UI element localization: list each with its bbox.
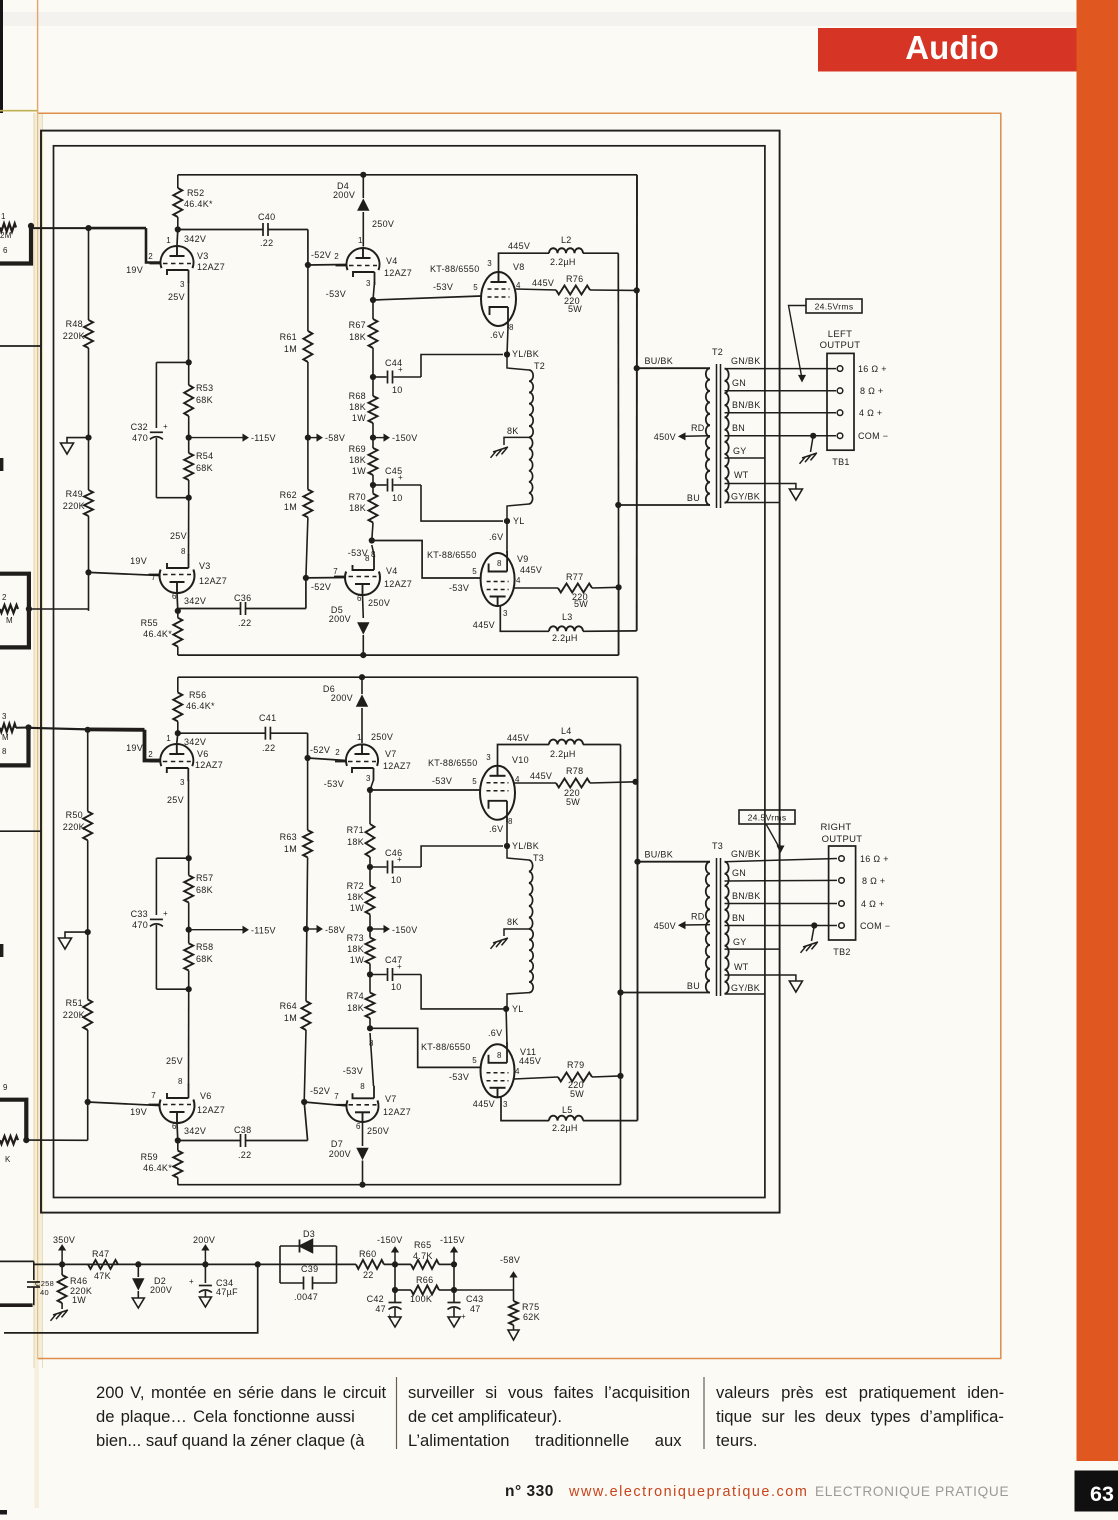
olive line left bbox=[0, 110, 37, 112]
capacitor C38 .22 bbox=[178, 1140, 241, 1142]
wire BN/BK tap to 4ohm bbox=[725, 412, 837, 414]
capacitor C40 .22 bbox=[178, 229, 263, 231]
node cathode junction bottom bbox=[186, 495, 192, 501]
svg-text:16 Ω +: 16 Ω + bbox=[860, 854, 889, 864]
svg-text:5W: 5W bbox=[568, 304, 582, 314]
svg-text:220K: 220K bbox=[63, 501, 85, 511]
node -150V psu bbox=[392, 1261, 398, 1267]
svg-text:D3: D3 bbox=[303, 1229, 315, 1239]
24.5Vrms callout box ch2 bbox=[739, 810, 795, 824]
svg-text:LEFT: LEFT bbox=[828, 329, 852, 340]
svg-text:GN: GN bbox=[732, 378, 746, 388]
wire GY tap to outer loop ch2 bbox=[725, 948, 780, 950]
node cathode junction top ch2 bbox=[186, 855, 192, 861]
svg-text:8: 8 bbox=[508, 817, 513, 826]
svg-text:12AZ7: 12AZ7 bbox=[197, 262, 225, 272]
svg-text:10: 10 bbox=[392, 493, 403, 503]
svg-text:200V: 200V bbox=[333, 190, 355, 200]
svg-text:C40: C40 bbox=[258, 212, 275, 222]
svg-text:445V: 445V bbox=[520, 565, 542, 575]
svg-text:R60: R60 bbox=[359, 1249, 376, 1259]
svg-text:KT-88/6550: KT-88/6550 bbox=[428, 758, 478, 768]
node R48 top bbox=[85, 225, 91, 231]
svg-text:WT: WT bbox=[734, 470, 749, 480]
left grid-leak column ch2 bbox=[87, 730, 89, 812]
capacitor C44 10 bbox=[373, 376, 387, 378]
svg-text:445V: 445V bbox=[473, 620, 495, 630]
svg-text:5: 5 bbox=[472, 567, 477, 576]
node V3 lower grid bbox=[85, 569, 91, 575]
svg-text:-58V: -58V bbox=[500, 1255, 520, 1265]
input fragment 1 resistor stub bbox=[0, 224, 16, 232]
resistor R71 18K bbox=[369, 790, 371, 824]
svg-text:220K: 220K bbox=[63, 1010, 85, 1020]
node -115V ch2 bbox=[186, 927, 192, 933]
wire WT tap to ground ch2 bbox=[725, 975, 796, 981]
svg-text:.6V: .6V bbox=[488, 1028, 502, 1038]
zener diode D6 200V bbox=[361, 677, 363, 694]
svg-text:GN: GN bbox=[732, 868, 746, 878]
svg-text:3: 3 bbox=[180, 778, 185, 787]
vertical bus x637 (rail/R76/BUBK/L3) bbox=[636, 175, 638, 631]
svg-text:GN/BK: GN/BK bbox=[731, 356, 761, 366]
resistor R49 220K bbox=[84, 490, 93, 516]
svg-text:C42: C42 bbox=[367, 1294, 384, 1304]
wire WT tap to ground bbox=[725, 484, 796, 490]
svg-text:T3: T3 bbox=[712, 841, 723, 851]
svg-text:.22: .22 bbox=[238, 618, 251, 628]
V8 cathode lead bbox=[507, 327, 508, 355]
resistor R65 4.7K bbox=[411, 1260, 439, 1269]
ground open triangle 1 bbox=[61, 443, 74, 454]
svg-text:200V: 200V bbox=[329, 1149, 351, 1159]
resistor R56 46.4K bbox=[177, 677, 179, 692]
terminal strip TB1 bbox=[827, 353, 854, 450]
svg-text:7: 7 bbox=[333, 567, 338, 576]
svg-text:-52V: -52V bbox=[310, 1086, 330, 1096]
wire GY/BK tap to inner loop ch2 bbox=[725, 993, 765, 995]
node V4 lower grid bbox=[303, 575, 309, 581]
svg-text:L3: L3 bbox=[562, 612, 573, 622]
V3 cathode column / bias divider bbox=[188, 282, 190, 362]
svg-text:47: 47 bbox=[470, 1304, 481, 1314]
svg-text:TB2: TB2 bbox=[833, 947, 850, 957]
svg-text:350V: 350V bbox=[53, 1235, 75, 1245]
svg-text:3: 3 bbox=[487, 259, 492, 268]
svg-text:445V: 445V bbox=[508, 241, 530, 251]
wire to V7 pin2 bbox=[308, 758, 346, 761]
svg-text:GN/BK: GN/BK bbox=[731, 849, 761, 859]
capacitor C43 47 bbox=[448, 1302, 461, 1304]
inductor L3 2.2uH bbox=[549, 626, 583, 631]
node input1 bbox=[28, 223, 34, 229]
capacitor C34 47uF bbox=[204, 1264, 206, 1283]
svg-text:5: 5 bbox=[472, 1056, 477, 1065]
node 200V bbox=[202, 1261, 208, 1267]
svg-text:1: 1 bbox=[1, 212, 6, 221]
svg-text:R48: R48 bbox=[66, 319, 83, 329]
wire BU tap bbox=[618, 504, 710, 506]
svg-text:.22: .22 bbox=[262, 743, 275, 753]
svg-text:2: 2 bbox=[148, 750, 153, 759]
pentode V10 KT-88/6550 bbox=[480, 766, 515, 820]
node C46 bbox=[367, 864, 373, 870]
outer feedback loop rectangle bbox=[41, 131, 780, 1213]
svg-text:1M: 1M bbox=[284, 502, 297, 512]
svg-text:GY: GY bbox=[733, 937, 747, 947]
svg-text:68K: 68K bbox=[196, 885, 213, 895]
svg-text:R63: R63 bbox=[280, 832, 297, 842]
node V7 grid bbox=[305, 755, 311, 761]
svg-text:+: + bbox=[163, 909, 168, 918]
resistor R55 46.4K bbox=[177, 611, 179, 618]
svg-text:+: + bbox=[398, 473, 403, 482]
V6 lower plate lead + node 342V ch2 bbox=[176, 1123, 179, 1141]
svg-text:1M: 1M bbox=[284, 1013, 297, 1023]
B+ rail channel1 top bbox=[178, 174, 637, 176]
svg-text:1W: 1W bbox=[352, 466, 366, 476]
node V3 plate / C40 bbox=[175, 226, 181, 232]
vertical bus x620 ch2 bbox=[620, 745, 622, 1185]
svg-text:+: + bbox=[163, 422, 168, 431]
svg-text:M: M bbox=[2, 733, 9, 742]
svg-text:25V: 25V bbox=[170, 531, 187, 541]
V11 plate lead to L5 bbox=[501, 1097, 549, 1121]
transformer T3 primary winding bbox=[706, 862, 710, 993]
node -150V ch1 bbox=[370, 435, 376, 441]
svg-text:-150V: -150V bbox=[392, 925, 418, 935]
svg-text:8: 8 bbox=[497, 1051, 502, 1060]
svg-text:de plaque… Cela fonctionne: de plaque… Cela fonctionne aussi bbox=[96, 1407, 355, 1426]
svg-text:250V: 250V bbox=[368, 598, 390, 608]
wire C32 top bbox=[156, 361, 188, 363]
C42 leg bbox=[394, 1264, 396, 1302]
node ground tap 1 bbox=[85, 435, 91, 441]
svg-text:COM −: COM − bbox=[858, 431, 888, 441]
capacitor C32 470 bbox=[155, 362, 157, 428]
svg-text:R61: R61 bbox=[280, 332, 297, 342]
svg-text:R71: R71 bbox=[347, 825, 364, 835]
wire BU/BK tap bbox=[637, 367, 710, 369]
zener diode D5 200V bbox=[362, 595, 365, 618]
svg-text:25V: 25V bbox=[168, 292, 185, 302]
vertical bus x618 (L2/BU/R77) bbox=[617, 253, 619, 655]
svg-text:24.5Vrms: 24.5Vrms bbox=[815, 302, 854, 312]
svg-text:BN/BK: BN/BK bbox=[732, 891, 761, 901]
node V6 lower grid bbox=[85, 1099, 91, 1105]
psu long return wire bbox=[4, 1264, 258, 1333]
svg-text:12AZ7: 12AZ7 bbox=[195, 760, 223, 770]
svg-text:8 Ω +: 8 Ω + bbox=[862, 876, 886, 886]
svg-text:GY: GY bbox=[733, 446, 747, 456]
svg-text:3: 3 bbox=[486, 753, 491, 762]
svg-text:5W: 5W bbox=[566, 797, 580, 807]
node V4 grid bbox=[305, 262, 311, 268]
node -115V psu bbox=[451, 1261, 457, 1267]
svg-text:2.2µH: 2.2µH bbox=[552, 1123, 578, 1133]
wire to V4 pin7 bbox=[306, 577, 346, 579]
V3 lower plate lead + node 342V bbox=[176, 593, 179, 611]
svg-text:25V: 25V bbox=[166, 1056, 183, 1066]
wire V6 plate lead bbox=[177, 733, 178, 743]
svg-text:9: 9 bbox=[3, 1083, 8, 1092]
svg-text:BN: BN bbox=[732, 913, 745, 923]
capacitor C33 470 bbox=[155, 858, 157, 915]
input fragment 2 resistor stub bbox=[0, 605, 18, 613]
node 350V bbox=[59, 1261, 65, 1267]
ground open triangle C43 bbox=[448, 1317, 460, 1327]
bottom-left page edge mark bbox=[0, 1510, 7, 1515]
svg-text:2: 2 bbox=[335, 748, 340, 757]
resistor R47 47K bbox=[88, 1260, 118, 1269]
input fragment 3 resistor stub bbox=[0, 724, 16, 732]
node input4 bbox=[23, 1137, 29, 1143]
cathode winding T2 lower bbox=[529, 437, 533, 504]
svg-text:-58V: -58V bbox=[325, 925, 345, 935]
V9 cathode lead bbox=[506, 521, 508, 553]
T3 secondary winding bbox=[725, 862, 729, 994]
resistor R59 46.4K bbox=[177, 1141, 179, 1151]
psu main wire 350V bbox=[0, 1260, 34, 1262]
wire GY/BK tap to outer loop bbox=[725, 502, 780, 504]
node -53V ch1 upper bbox=[370, 297, 376, 303]
chassis ground R46 bbox=[53, 1310, 68, 1315]
svg-text:www.electroniquepratique.com: www.electroniquepratique.com bbox=[568, 1484, 808, 1500]
wire to V7 pin7 bbox=[304, 1102, 346, 1106]
24.5Vrms callout box ch1 bbox=[806, 299, 862, 313]
callout arrow ch1 bbox=[789, 306, 807, 377]
svg-text:C36: C36 bbox=[234, 593, 251, 603]
svg-text:R53: R53 bbox=[196, 383, 213, 393]
svg-text:8: 8 bbox=[497, 559, 502, 568]
svg-text:8: 8 bbox=[2, 747, 7, 756]
svg-text:+: + bbox=[398, 365, 403, 374]
svg-text:V4: V4 bbox=[386, 566, 398, 576]
svg-text:19V: 19V bbox=[130, 556, 147, 566]
wire GN/BK tap to 16ohm bbox=[725, 368, 837, 370]
svg-text:-115V: -115V bbox=[440, 1235, 465, 1245]
svg-text:-53V: -53V bbox=[324, 779, 344, 789]
left page-edge black bar bbox=[0, 0, 3, 113]
svg-text:R57: R57 bbox=[196, 873, 213, 883]
svg-text:4: 4 bbox=[516, 576, 521, 585]
wire GN tap to 8ohm ch2 bbox=[725, 879, 838, 882]
svg-text:C39: C39 bbox=[301, 1264, 318, 1274]
svg-text:de cet amplificateur).: de cet amplificateur). bbox=[408, 1407, 562, 1426]
node V7 lower grid bbox=[301, 1099, 307, 1105]
svg-text:3: 3 bbox=[366, 279, 371, 288]
node V9 grid feed bbox=[372, 523, 373, 541]
svg-text:.6V: .6V bbox=[490, 330, 504, 340]
svg-text:ELECTRONIQUE PRATIQUE: ELECTRONIQUE PRATIQUE bbox=[815, 1484, 1009, 1499]
svg-text:-53V: -53V bbox=[449, 1072, 469, 1082]
svg-text:200V: 200V bbox=[331, 693, 353, 703]
svg-text:RD: RD bbox=[691, 912, 705, 922]
svg-text:-150V: -150V bbox=[377, 1235, 403, 1245]
svg-text:12AZ7: 12AZ7 bbox=[199, 576, 227, 586]
C43 leg bbox=[453, 1264, 455, 1302]
svg-text:3: 3 bbox=[2, 712, 7, 721]
svg-text:OUTPUT: OUTPUT bbox=[820, 340, 861, 351]
svg-text:445V: 445V bbox=[530, 771, 552, 781]
pentode V9 KT-88/6550 bbox=[481, 553, 515, 606]
svg-text:R58: R58 bbox=[196, 942, 213, 952]
inductor L2 2.2uH bbox=[549, 248, 583, 253]
input fragment 1 thick return wire bbox=[0, 226, 31, 264]
svg-text:R70: R70 bbox=[349, 492, 366, 502]
wire RD tap 450V ch2 bbox=[684, 924, 710, 926]
V3 lower cathode lead bbox=[188, 498, 190, 555]
svg-text:6: 6 bbox=[356, 1122, 361, 1131]
svg-text:R75: R75 bbox=[522, 1302, 539, 1312]
wire to V6 pin7 bbox=[88, 1102, 160, 1106]
capacitor C47 10 bbox=[370, 974, 387, 976]
resistor R53 68K bbox=[184, 385, 193, 416]
resistor R73 18K 1W bbox=[366, 938, 375, 964]
svg-text:450V: 450V bbox=[654, 432, 676, 442]
svg-text:Audio: Audio bbox=[905, 29, 998, 66]
svg-text:18K: 18K bbox=[349, 332, 366, 342]
svg-text:n° 330: n° 330 bbox=[505, 1483, 554, 1500]
svg-text:2.2µH: 2.2µH bbox=[550, 749, 576, 759]
wire to V3 pin7 bbox=[89, 572, 160, 575]
node cathode junction bottom ch2 bbox=[186, 986, 192, 992]
bias rail corner up ch1 bbox=[618, 587, 620, 655]
svg-text:R55: R55 bbox=[141, 618, 158, 628]
resistor R67 18K bbox=[372, 300, 374, 319]
svg-text:19V: 19V bbox=[126, 265, 143, 275]
node C45 bbox=[370, 482, 376, 488]
diode D3 bbox=[300, 1240, 313, 1253]
svg-text:8: 8 bbox=[181, 547, 186, 556]
svg-text:+: + bbox=[397, 962, 402, 971]
svg-text:R56: R56 bbox=[189, 690, 206, 700]
svg-text:2: 2 bbox=[334, 252, 339, 261]
svg-text:200 V, montée en série dans le: 200 V, montée en série dans le circuit bbox=[96, 1383, 387, 1402]
ground open triangle WT bbox=[789, 489, 802, 500]
svg-text:7: 7 bbox=[151, 1091, 156, 1100]
V10 cathode lead bbox=[506, 821, 508, 846]
wire BN/BK tap to 4ohm ch2 bbox=[725, 903, 838, 905]
inner feedback loop rectangle bbox=[54, 146, 765, 1198]
svg-text:C258: C258 bbox=[35, 1279, 54, 1288]
cathode winding T3 upper bbox=[507, 846, 529, 860]
node R79 bus bbox=[617, 1073, 623, 1079]
resistor R75 62K bbox=[513, 1290, 515, 1301]
svg-text:-53V: -53V bbox=[326, 289, 346, 299]
svg-text:R68: R68 bbox=[349, 391, 366, 401]
wire V11 grid path bbox=[370, 1028, 481, 1067]
svg-text:1W: 1W bbox=[350, 903, 364, 913]
svg-text:BU/BK: BU/BK bbox=[644, 850, 673, 860]
svg-text:342V: 342V bbox=[184, 234, 206, 244]
svg-text:2: 2 bbox=[148, 252, 153, 261]
chassis ground TB2 bbox=[803, 942, 818, 947]
wire input1 to grid corner bbox=[31, 227, 89, 229]
svg-text:M: M bbox=[6, 616, 13, 625]
svg-text:220K: 220K bbox=[63, 822, 85, 832]
svg-text:47: 47 bbox=[375, 1304, 386, 1314]
svg-text:OUTPUT: OUTPUT bbox=[822, 834, 863, 845]
svg-text:3: 3 bbox=[503, 609, 508, 618]
V11 cathode lead bbox=[505, 1009, 508, 1044]
svg-text:12AZ7: 12AZ7 bbox=[197, 1105, 225, 1115]
chassis ground TB1 bbox=[802, 453, 817, 458]
wire GN tap to 8ohm bbox=[725, 390, 837, 392]
cathode winding T3 lower bbox=[529, 929, 533, 993]
resistor R74 18K bbox=[366, 993, 375, 1019]
svg-text:T2: T2 bbox=[534, 361, 545, 371]
svg-text:D7: D7 bbox=[331, 1139, 343, 1149]
svg-text:-52V: -52V bbox=[311, 250, 331, 260]
svg-text:46.4K*: 46.4K* bbox=[143, 1163, 172, 1173]
triode V3 lower half 12AZ7 bbox=[160, 570, 195, 594]
svg-text:R46: R46 bbox=[70, 1276, 87, 1286]
svg-text:3: 3 bbox=[180, 280, 185, 289]
resistor R57 68K bbox=[188, 858, 190, 875]
svg-text:+: + bbox=[461, 1312, 466, 1321]
wire BN tap to COM bbox=[725, 435, 837, 437]
wire input4 bbox=[26, 1139, 87, 1141]
node rail D6 bbox=[359, 674, 365, 680]
wire L5 to bus ch2 bbox=[583, 1120, 638, 1122]
wire to V4 pin2 bbox=[308, 264, 346, 267]
scanner gray band top bbox=[0, 12, 1080, 26]
svg-text:46.4K*: 46.4K* bbox=[143, 629, 172, 639]
triode V4 upper half 12AZ7 bbox=[347, 248, 380, 270]
svg-text:18K: 18K bbox=[347, 944, 364, 954]
svg-text:.22: .22 bbox=[238, 1150, 251, 1160]
Audio banner bbox=[818, 28, 1082, 72]
svg-text:25V: 25V bbox=[167, 795, 184, 805]
svg-text:250V: 250V bbox=[371, 732, 393, 742]
svg-text:V3: V3 bbox=[199, 561, 211, 571]
svg-text:KT-88/6550: KT-88/6550 bbox=[430, 264, 480, 274]
wire GY tap to inner loop bbox=[725, 457, 765, 459]
D3 C39 parallel network box bbox=[279, 1246, 281, 1283]
svg-text:220K: 220K bbox=[63, 331, 85, 341]
wire to ground 2 bbox=[65, 932, 88, 938]
resistor R50 220K bbox=[83, 811, 92, 840]
ground open triangle WT ch2 bbox=[789, 981, 802, 992]
node R77 bus bbox=[616, 584, 622, 590]
svg-text:BU: BU bbox=[687, 493, 700, 503]
svg-text:18K: 18K bbox=[347, 1003, 364, 1013]
zener diode D4 200V bbox=[362, 175, 364, 198]
svg-text:BN/BK: BN/BK bbox=[732, 400, 761, 410]
svg-text:V8: V8 bbox=[513, 262, 525, 272]
svg-text:200V: 200V bbox=[150, 1285, 172, 1295]
terminal strip TB2 bbox=[829, 846, 856, 940]
resistor R72 18K 1W bbox=[366, 886, 375, 915]
triode V6 upper half 12AZ7 bbox=[160, 744, 193, 766]
svg-text:5W: 5W bbox=[574, 599, 588, 609]
svg-text:18K: 18K bbox=[349, 455, 366, 465]
svg-text:R65: R65 bbox=[414, 1240, 431, 1250]
svg-text:450V: 450V bbox=[654, 921, 676, 931]
svg-text:R74: R74 bbox=[347, 991, 364, 1001]
wire C33 top bbox=[156, 857, 188, 859]
input fragment 4 resistor stub bbox=[0, 1136, 18, 1144]
svg-text:342V: 342V bbox=[184, 1126, 206, 1136]
V10 screen wire + resistor R78 220 5W bbox=[514, 782, 556, 784]
psu stub wire thick bbox=[0, 1303, 33, 1307]
node V11 grid feed bbox=[369, 1018, 371, 1028]
svg-text:R64: R64 bbox=[280, 1001, 297, 1011]
svg-text:10: 10 bbox=[391, 875, 402, 885]
svg-text:19V: 19V bbox=[126, 743, 143, 753]
winding 8K tap + chassis ground bbox=[504, 437, 529, 445]
